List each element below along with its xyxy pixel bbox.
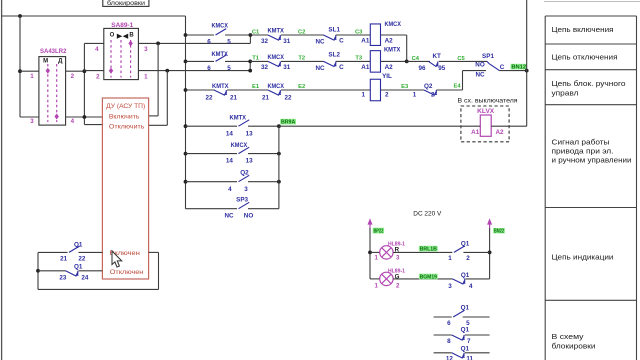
svg-text:A1: A1 (471, 129, 480, 136)
switch SA89-1 body (104, 28, 139, 79)
svg-text:A2: A2 (385, 38, 394, 45)
net BN22 (highlighted) (493, 228, 505, 233)
row1 wire segment a (186, 34, 215, 36)
svg-text:21: 21 (230, 94, 238, 101)
contact Q1 6-5 (434, 316, 452, 318)
svg-text:Цепь отключения: Цепь отключения (552, 53, 618, 62)
svg-text:NC: NC (224, 212, 234, 219)
row3 wire segment d (381, 89, 425, 91)
svg-text:E4: E4 (453, 84, 461, 90)
node junction (185,35) (184, 33, 188, 37)
vertical link x167 to DU (166, 71, 168, 126)
svg-text:G: G (395, 273, 400, 280)
node junction (527,70) (525, 69, 529, 73)
contact Q2 4-3 (239, 175, 250, 181)
drawing sheet left border (1, 0, 3, 360)
svg-text:NO: NO (475, 61, 485, 68)
SA89-1 pin 2 wire (84, 70, 103, 72)
node junction (489,252) (488, 251, 492, 255)
svg-text:31: 31 (283, 64, 291, 71)
contact SP3 NC-NO (239, 202, 250, 208)
contact Q1 3-4 (452, 279, 463, 284)
bus mid vertical x279 (278, 126, 280, 209)
lamp bus right vertical (489, 228, 491, 279)
svg-text:NC: NC (475, 71, 485, 78)
svg-text:1: 1 (374, 283, 378, 290)
svg-text:BN22: BN22 (494, 229, 504, 235)
svg-text:KMCX: KMCX (211, 23, 228, 30)
svg-text:блокировки: блокировки (107, 1, 145, 7)
node junction (279,126) (277, 124, 281, 128)
wire DU second output (149, 124, 168, 126)
svg-text:NC: NC (315, 38, 325, 45)
svg-text:DC 220 V: DC 220 V (413, 210, 442, 217)
node junction (185,90) (184, 88, 188, 92)
SP1 NC stub (463, 70, 487, 72)
lamp HL89-1 R (370, 251, 380, 253)
net BRL1B (highlighted) (419, 246, 438, 252)
svg-text:блокировки: блокировки (552, 341, 596, 350)
net BP22 (highlighted) (373, 228, 384, 234)
wire left drop x20 (19, 16, 21, 117)
svg-text:23: 23 (59, 275, 67, 282)
row2 wire segment d (281, 60, 324, 62)
svg-text:11: 11 (466, 355, 473, 360)
row1 wire segment b (225, 34, 250, 36)
left link vertical x84 (83, 43, 85, 124)
node junction (38,270) (36, 269, 40, 273)
svg-text:8: 8 (447, 338, 451, 345)
vertical link x158 to DU (157, 43, 159, 116)
svg-text:4: 4 (469, 283, 473, 290)
svg-text:NC: NC (315, 65, 325, 72)
svg-text:1: 1 (448, 255, 452, 262)
svg-text:14: 14 (226, 130, 234, 137)
node junction (84,117) (83, 115, 87, 119)
SA89-1 position dashes (110, 40, 112, 78)
timer contact KT 96-95 (429, 61, 437, 66)
svg-text:A2: A2 (385, 64, 394, 71)
contact Q1 21-22 (38, 251, 68, 253)
row4 wire segment b (248, 125, 279, 127)
Q1 block bottom wire (38, 288, 159, 290)
bus left vertical x185 (185, 16, 187, 209)
contact KMTX 14-13 (239, 120, 250, 126)
svg-text:E2: E2 (298, 84, 305, 90)
svg-text:E1: E1 (252, 84, 260, 90)
svg-text:95: 95 (438, 65, 446, 72)
svg-text:12: 12 (446, 355, 454, 360)
svg-text:22: 22 (284, 94, 292, 101)
coil KLVX (480, 115, 491, 136)
SP1 C wire (499, 70, 526, 72)
svg-text:14: 14 (226, 158, 234, 165)
row4 wire segment a (186, 125, 238, 127)
row1->row2 drop x406 (406, 35, 408, 61)
svg-text:6: 6 (447, 320, 451, 327)
node junction (167,70) (165, 69, 169, 73)
row2 wire segment g (407, 60, 430, 62)
svg-text:4: 4 (95, 46, 99, 53)
svg-text:13: 13 (246, 158, 254, 165)
row1 wire segment d (281, 34, 324, 36)
svg-text:C5: C5 (457, 56, 465, 62)
contact Q1 12-11 (434, 352, 452, 354)
svg-text:3: 3 (244, 186, 248, 193)
svg-text:BN12: BN12 (511, 65, 526, 71)
node junction (370,252) (368, 251, 372, 255)
contact Q2 1-2 (424, 90, 435, 95)
row2 wire segment f (381, 60, 407, 62)
svg-text:3: 3 (30, 118, 34, 125)
svg-text:31: 31 (283, 38, 291, 45)
contact Q1 8-7 (434, 334, 452, 336)
box from blocking scheme (блокировки) (103, 0, 149, 6)
mouse cursor (112, 251, 122, 267)
node junction (20,71) (18, 69, 22, 73)
svg-text:М: М (43, 59, 48, 65)
row2 wire segment b (225, 60, 250, 62)
row3 wire segment b (227, 89, 268, 91)
svg-text:KMCX: KMCX (267, 54, 284, 61)
svg-text:KMTX: KMTX (267, 27, 284, 34)
row3 wire segment c (281, 89, 370, 91)
svg-text:Отключить: Отключить (109, 123, 145, 130)
contact KMCX 6-5 (216, 29, 227, 35)
node junction (185,126.2) (184, 124, 188, 128)
svg-text:Q2: Q2 (240, 169, 249, 176)
svg-text:KT: KT (432, 53, 441, 60)
svg-text:BRL1B: BRL1B (420, 247, 437, 253)
coil YIL (370, 79, 380, 101)
svg-text:A1: A1 (361, 64, 370, 71)
svg-text:Сигнал работы: Сигнал работы (552, 138, 610, 147)
row2 wire segment c (250, 60, 268, 62)
svg-text:6: 6 (207, 38, 211, 45)
svg-text:C: C (500, 64, 505, 71)
svg-text:Отключен: Отключен (110, 269, 144, 276)
node junction C1 (249, 33, 253, 37)
svg-text:KMCX: KMCX (231, 142, 248, 149)
svg-text:C: C (339, 38, 344, 45)
svg-text:2: 2 (396, 283, 400, 290)
row1 wire segment c (250, 34, 268, 36)
node junction (185,153.6) (184, 152, 188, 156)
row1 wire segment f (381, 34, 407, 36)
svg-text:KMCX: KMCX (384, 21, 401, 28)
svg-text:1: 1 (374, 255, 378, 262)
svg-text:Д: Д (58, 59, 63, 65)
svg-text:2: 2 (96, 73, 100, 80)
SA43LR2 pin 1 wire (20, 70, 39, 72)
node junction C4 (405, 60, 409, 64)
SA89-1 cam symbol (117, 34, 123, 39)
remote control box DU (ASU TP) (102, 98, 148, 279)
svg-text:SP3: SP3 (236, 196, 248, 203)
riser to row1 x250 (249, 35, 251, 43)
row3 wire segment e (436, 89, 462, 91)
node junction (185,61.4) (184, 60, 188, 64)
svg-text:Q1: Q1 (461, 326, 470, 333)
function table frame (544, 16, 546, 360)
svg-text:Цепь индикации: Цепь индикации (552, 253, 614, 262)
wire DU Vklyuchen output (149, 251, 159, 253)
node junction (84,71) (83, 69, 87, 73)
svg-text:3: 3 (448, 283, 452, 290)
wire top feeder y16 (2, 15, 186, 17)
SA43LR2 pin 4 wire (66, 116, 103, 118)
svg-text:ДУ (АСУ ТП): ДУ (АСУ ТП) (106, 103, 145, 110)
bus right vertical x527 (526, 0, 528, 126)
svg-text:2: 2 (71, 73, 75, 80)
node junction T1 (248, 60, 252, 64)
wire to DU Otklyuchit input (84, 124, 102, 126)
node junction (20,16) (18, 14, 22, 18)
contact KMCX 32-31 (268, 61, 279, 66)
node junction (185,181.7) (184, 180, 188, 184)
supply arrow left (magenta) (369, 222, 371, 228)
svg-text:21: 21 (60, 256, 68, 263)
svg-text:управл: управл (552, 88, 579, 97)
svg-text:3: 3 (396, 255, 400, 262)
row6 wire segment b (248, 181, 279, 183)
net BR9A (highlighted) (280, 119, 296, 125)
svg-text:Цепь включения: Цепь включения (552, 25, 614, 34)
svg-text:Q1: Q1 (461, 241, 470, 248)
svg-text:KMCX: KMCX (267, 83, 284, 90)
svg-text:A1: A1 (361, 38, 370, 45)
svg-text:KMTX: KMTX (211, 51, 228, 58)
svg-text:5: 5 (227, 65, 231, 72)
svg-text:Q1: Q1 (74, 263, 83, 270)
svg-text:A2: A2 (495, 129, 504, 136)
net BN12 (highlighted) (511, 64, 527, 70)
contact Q1 1-2 (454, 246, 465, 252)
svg-text:привода при эл.: привода при эл. (552, 147, 614, 156)
svg-text:2: 2 (466, 255, 470, 262)
dashed box KLVX (461, 106, 509, 142)
svg-text:13: 13 (246, 130, 254, 137)
NC drop x462 (462, 71, 464, 90)
SA43LR2 position dashes (47, 64, 49, 122)
svg-text:3: 3 (144, 46, 148, 53)
svg-text:SA43LR2: SA43LR2 (40, 48, 67, 55)
svg-text:Q1: Q1 (461, 346, 470, 353)
riser to row2 x250 (249, 61, 251, 70)
node junction (279,153) (277, 152, 281, 156)
svg-text:Q1: Q1 (461, 272, 470, 279)
contact KMTX 22-21 (214, 90, 225, 95)
svg-text:2: 2 (431, 91, 435, 98)
limit switch SL1 (324, 35, 335, 40)
limit switch SL2 (324, 61, 335, 66)
contact KMCX 21-22 (268, 90, 279, 95)
svg-text:22: 22 (205, 94, 213, 101)
switch SA43LR2 body (39, 57, 66, 126)
svg-text:SL2: SL2 (328, 52, 340, 59)
row2 wire segment e (336, 60, 371, 62)
svg-text:24: 24 (81, 275, 89, 282)
row1 wire segment e (336, 34, 371, 36)
supply arrow right (magenta) (489, 222, 491, 228)
svg-text:KMTX: KMTX (230, 115, 247, 122)
row3 wire segment a (186, 89, 215, 91)
svg-text:1: 1 (30, 73, 34, 80)
contact KMTX 6-5 (216, 55, 227, 61)
svg-text:и ручном управлении: и ручном управлении (552, 156, 632, 165)
svg-text:7: 7 (467, 338, 471, 345)
svg-text:В сх. выключателя: В сх. выключателя (458, 98, 518, 105)
svg-text:32: 32 (261, 64, 269, 71)
row2 wire segment a (186, 60, 215, 62)
Q1 block left vertical (37, 252, 39, 289)
svg-text:Цепь блок. ручного: Цепь блок. ручного (552, 79, 626, 88)
node junction (279,181) (277, 180, 281, 184)
svg-text:NO: NO (244, 212, 254, 219)
SA43LR2 pin 2 wire (66, 70, 85, 72)
row7 wire segment b (248, 208, 279, 210)
svg-text:E3: E3 (401, 84, 409, 90)
SA89-1 pin 4 wire (84, 42, 103, 44)
svg-text:6: 6 (207, 65, 211, 72)
row4 wire after KLVX (491, 125, 527, 127)
svg-text:В схему: В схему (552, 332, 584, 341)
svg-text:Q1: Q1 (74, 242, 83, 249)
row7 wire segment a (186, 208, 238, 210)
svg-text:BR9A: BR9A (281, 120, 295, 126)
svg-text:1: 1 (144, 73, 148, 80)
row5 wire segment b (248, 153, 279, 155)
svg-text:BP22: BP22 (373, 229, 383, 235)
svg-text:T1: T1 (252, 56, 260, 62)
svg-text:1: 1 (362, 92, 366, 99)
svg-text:32: 32 (261, 38, 269, 45)
svg-text:C: C (339, 64, 344, 71)
svg-text:C3: C3 (355, 29, 363, 35)
svg-text:C1: C1 (252, 29, 260, 35)
svg-text:21: 21 (262, 94, 270, 101)
svg-text:О: О (110, 32, 115, 38)
svg-text:KMTX: KMTX (212, 83, 229, 90)
SA89-1 pin 3 wire (138, 42, 250, 44)
svg-text:5: 5 (227, 38, 231, 45)
svg-text:Включить: Включить (109, 113, 140, 120)
wire DU Vklyuchit output (149, 115, 159, 117)
svg-text:C2: C2 (298, 29, 305, 35)
node junction (158,43) (156, 42, 160, 46)
svg-text:YIL: YIL (382, 73, 392, 80)
svg-text:T2: T2 (298, 56, 305, 62)
row5 wire segment a (186, 153, 238, 155)
svg-text:SP1: SP1 (482, 53, 494, 60)
coil KMTX (370, 51, 380, 73)
SA43LR2 pin 3 wire (20, 116, 39, 118)
contact Q1 23-24 (38, 270, 66, 272)
svg-text:T3: T3 (355, 56, 363, 62)
SA89-1 pin 1 wire (138, 70, 250, 72)
contact KMTX 32-31 (268, 35, 279, 40)
svg-text:R: R (395, 247, 400, 254)
svg-text:2: 2 (385, 92, 389, 99)
svg-text:4: 4 (71, 118, 75, 125)
svg-text:В: В (129, 32, 134, 38)
svg-text:KLVX: KLVX (477, 108, 495, 115)
svg-text:SL1: SL1 (328, 26, 340, 33)
svg-text:BGM19: BGM19 (420, 275, 437, 281)
svg-text:Q2: Q2 (424, 83, 433, 90)
lamp bus left vertical (369, 228, 371, 279)
net BGM19 (highlighted) (419, 274, 438, 280)
row2 wire segment h (439, 60, 487, 62)
row4 wire to KLVX (279, 125, 480, 127)
contact KMCX 14-13 (239, 147, 250, 153)
svg-text:1: 1 (413, 91, 417, 98)
Q1 block right vertical (158, 252, 160, 289)
lamp HL89-1 G (370, 278, 380, 280)
svg-text:KMTX: KMTX (384, 46, 401, 53)
coil KMCX (370, 24, 380, 46)
faint top frame line (right) (544, 1, 640, 3)
svg-text:22: 22 (78, 256, 86, 263)
svg-text:96: 96 (418, 65, 426, 72)
row6 wire segment a (186, 181, 238, 183)
svg-text:Q1: Q1 (461, 305, 470, 312)
svg-text:4: 4 (228, 186, 232, 193)
